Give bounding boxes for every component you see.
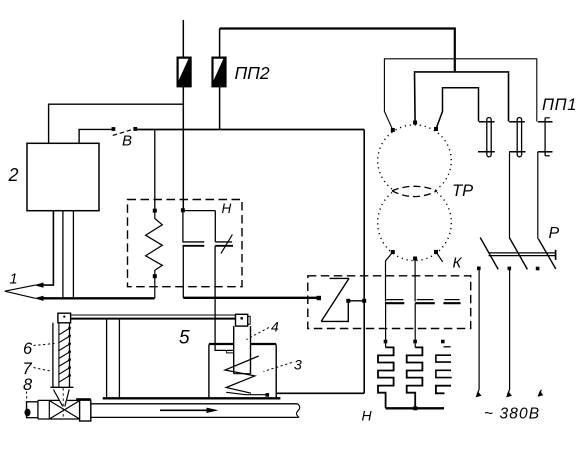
svg-text:8: 8 — [23, 376, 33, 394]
svg-text:4: 4 — [271, 319, 279, 335]
svg-text:Н: Н — [362, 408, 373, 424]
svg-text:6: 6 — [23, 340, 33, 358]
svg-text:Н: Н — [222, 201, 232, 216]
svg-text:~ 380В: ~ 380В — [484, 406, 540, 423]
svg-text:3: 3 — [294, 356, 302, 372]
svg-text:5: 5 — [179, 327, 190, 348]
svg-text:К: К — [453, 255, 463, 272]
svg-text:Р: Р — [549, 225, 560, 242]
svg-text:В: В — [122, 133, 132, 150]
svg-text:ПП2: ПП2 — [235, 63, 270, 83]
svg-text:ТР: ТР — [452, 182, 473, 200]
svg-text:2: 2 — [8, 165, 19, 185]
svg-text:1: 1 — [10, 272, 18, 288]
svg-text:ПП1: ПП1 — [542, 96, 577, 114]
